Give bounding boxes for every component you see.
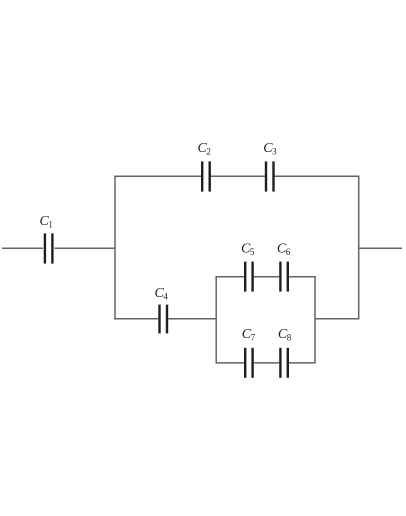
wire: inner top, left to C5 xyxy=(216,276,245,278)
wire: inner box to right junction xyxy=(315,318,359,320)
capacitor C6 plates xyxy=(279,262,281,292)
svg-text:C8: C8 xyxy=(278,327,292,343)
svg-text:C5: C5 xyxy=(241,242,255,258)
capacitor C2 plates xyxy=(201,161,203,191)
wire: inner bottom, left to C7 xyxy=(216,362,245,364)
svg-text:C3: C3 xyxy=(263,141,277,157)
capacitor C8 plates xyxy=(279,348,281,378)
capacitor C4 plates xyxy=(158,305,160,334)
capacitor C5 plates xyxy=(244,262,246,292)
capacitor C3 plates xyxy=(265,161,267,191)
wire: top branch, C2 to C3 xyxy=(211,175,265,177)
svg-text:C2: C2 xyxy=(198,141,211,157)
node: inner box right vertical xyxy=(314,276,316,363)
capacitor C7 plates xyxy=(244,348,246,378)
svg-text:C1: C1 xyxy=(40,214,53,230)
node: left junction vertical xyxy=(114,176,116,320)
wire: bottom branch, C4 to inner box xyxy=(168,318,216,320)
wire: top branch, junction to C2 xyxy=(114,175,201,177)
wire: C1 to left junction xyxy=(55,247,116,249)
wire: top branch, C3 to right junction xyxy=(275,175,360,177)
capacitor C1 plates xyxy=(44,233,46,263)
wire: output lead xyxy=(359,247,402,249)
node: right junction vertical xyxy=(358,176,360,320)
wire: inner top, C5 to C6 xyxy=(254,276,280,278)
wire: bottom branch, junction to C4 xyxy=(114,318,158,320)
wire: input lead xyxy=(2,247,43,249)
wire: inner bottom, C7 to C8 xyxy=(254,362,280,364)
svg-text:C6: C6 xyxy=(277,242,291,258)
svg-text:C7: C7 xyxy=(242,327,256,343)
node: inner box left vertical xyxy=(215,276,217,363)
wire: inner top, C6 to right xyxy=(289,276,316,278)
wire: inner bottom, C8 to right xyxy=(289,362,316,364)
svg-text:C4: C4 xyxy=(155,286,169,302)
